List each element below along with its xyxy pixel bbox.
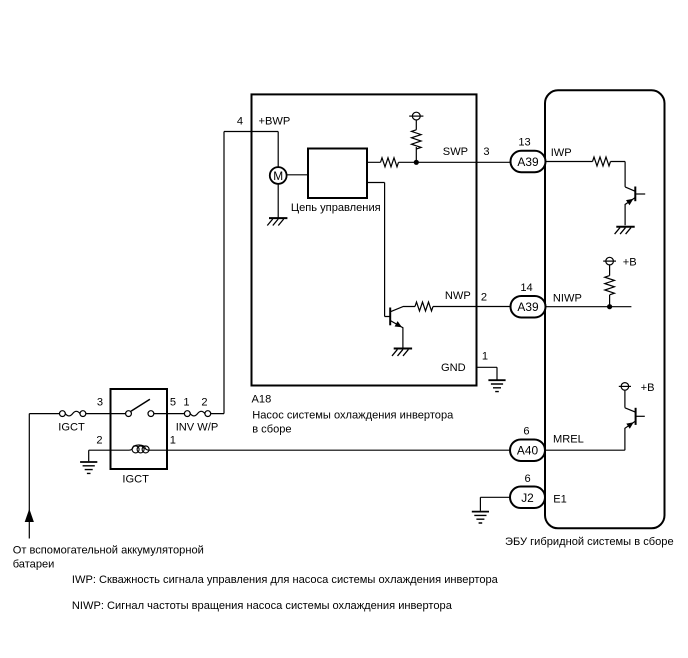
- svg-text:4: 4: [237, 116, 243, 128]
- svg-text:J2: J2: [521, 491, 534, 505]
- svg-text:2: 2: [201, 397, 207, 409]
- svg-text:1: 1: [482, 350, 488, 362]
- svg-text:батареи: батареи: [13, 558, 55, 570]
- svg-text:3: 3: [483, 146, 489, 158]
- svg-text:ЭБУ гибридной системы в сборе: ЭБУ гибридной системы в сборе: [505, 536, 674, 548]
- svg-text:1: 1: [183, 397, 189, 409]
- svg-text:3: 3: [97, 397, 103, 409]
- svg-text:6: 6: [523, 426, 529, 438]
- svg-text:Насос системы охлаждения инвер: Насос системы охлаждения инвертора: [252, 410, 454, 422]
- svg-text:+BWP: +BWP: [259, 116, 291, 128]
- svg-text:2: 2: [96, 435, 102, 447]
- svg-text:14: 14: [520, 282, 532, 294]
- svg-text:+B: +B: [623, 257, 637, 269]
- svg-text:A39: A39: [517, 300, 539, 314]
- svg-text:E1: E1: [553, 494, 567, 506]
- svg-text:IGCT: IGCT: [58, 422, 85, 434]
- svg-text:A40: A40: [517, 444, 539, 458]
- svg-text:+B: +B: [641, 382, 655, 394]
- svg-text:A18: A18: [252, 393, 272, 405]
- svg-text:INV W/P: INV W/P: [176, 422, 219, 434]
- svg-text:NIWP: Сигнал частоты вращения: NIWP: Сигнал частоты вращения насоса сис…: [72, 600, 453, 612]
- svg-text:6: 6: [525, 473, 531, 485]
- svg-text:M: M: [273, 169, 283, 183]
- svg-text:От вспомогательной аккумулятор: От вспомогательной аккумуляторной: [13, 544, 204, 556]
- svg-text:NWP: NWP: [445, 290, 471, 302]
- svg-text:NIWP: NIWP: [553, 292, 582, 304]
- svg-text:13: 13: [518, 137, 530, 149]
- svg-text:в сборе: в сборе: [252, 423, 291, 435]
- svg-text:2: 2: [481, 292, 487, 304]
- svg-text:IWP: Скважность сигнала управл: IWP: Скважность сигнала управления для н…: [72, 574, 499, 586]
- svg-text:MREL: MREL: [553, 434, 584, 446]
- svg-text:5: 5: [170, 397, 176, 409]
- svg-text:IWP: IWP: [551, 147, 572, 159]
- svg-text:IGCT: IGCT: [122, 474, 149, 486]
- svg-text:GND: GND: [441, 362, 466, 374]
- svg-text:SWP: SWP: [443, 146, 468, 158]
- svg-text:1: 1: [170, 435, 176, 447]
- svg-text:Цепь управления: Цепь управления: [291, 202, 381, 214]
- svg-text:A39: A39: [517, 155, 539, 169]
